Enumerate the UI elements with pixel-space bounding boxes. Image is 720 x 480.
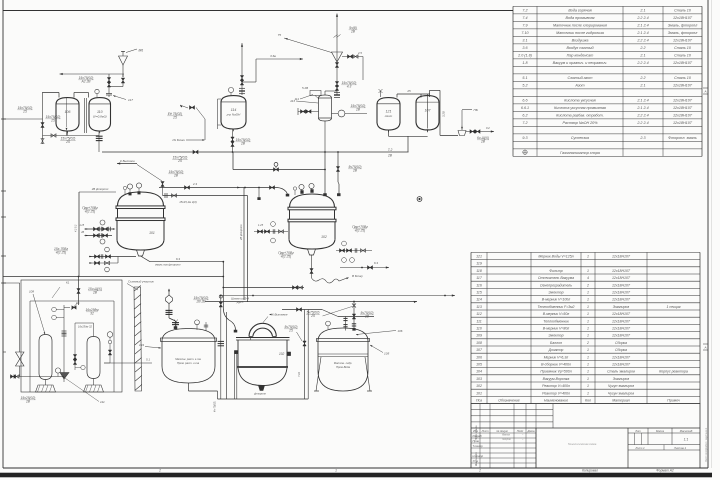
vessel 105 gauge — [326, 321, 331, 329]
svg-text:Реактор V=400л: Реактор V=400л — [542, 384, 570, 388]
svg-text:3.6: 3.6 — [522, 46, 528, 50]
valve on header — [172, 150, 198, 163]
svg-text:Подп. и дата: Подп. и дата — [475, 425, 478, 440]
svg-text:12х18Н10Т: 12х18Н10Т — [673, 121, 693, 125]
svg-text:2.0 (1.8): 2.0 (1.8) — [517, 54, 533, 58]
tank 110 gauge — [95, 89, 99, 97]
svg-text:4(2 25): 4(2 25) — [355, 228, 365, 232]
svg-text:Эмалиров: Эмалиров — [613, 305, 630, 309]
svg-text:Эмалиров: Эмалиров — [613, 377, 630, 381]
svg-text:4(2 25): 4(2 25) — [56, 250, 66, 254]
svg-text:12х18Н10Т: 12х18Н10Т — [612, 276, 631, 280]
svg-text:М6: М6 — [139, 49, 144, 53]
arrow line to left — [60, 73, 125, 84]
reactor 101 gauges — [123, 183, 141, 195]
svg-text:2.1: 2.1 — [639, 84, 645, 88]
svg-text:1: 1 — [587, 363, 589, 367]
reactor 101 top-right pipes — [159, 182, 289, 204]
svg-text:Дозатор: Дозатор — [548, 348, 564, 352]
bund inner box — [30, 301, 114, 392]
riser above 114 — [241, 43, 243, 95]
svg-text:2В: 2В — [352, 168, 358, 172]
svg-text:4(2 25): 4(2 25) — [85, 209, 95, 213]
svg-text:12х18Н10Т: 12х18Н10Т — [673, 39, 693, 43]
break marks — [334, 26, 358, 38]
bottom reactor body — [236, 338, 290, 386]
svg-text:А: А — [703, 345, 706, 349]
svg-text:Теплообменник F=3м2: Теплообменник F=3м2 — [538, 305, 575, 309]
svg-text:2.2 2.4: 2.2 2.4 — [636, 39, 648, 43]
svg-text:Сжатый азот: Сжатый азот — [568, 76, 593, 80]
svg-text:К1: К1 — [66, 281, 70, 285]
svg-text:2В: 2В — [80, 232, 84, 234]
svg-text:12х18Н10Т: 12х18Н10Т — [612, 355, 631, 359]
svg-text:114: 114 — [231, 108, 237, 112]
balloon2 feed — [73, 323, 93, 370]
label 113 — [290, 99, 318, 103]
lever valve — [64, 303, 99, 315]
svg-text:105: 105 — [384, 352, 389, 356]
svg-text:2В фторопл: 2В фторопл — [239, 224, 243, 241]
riser x337 with top arrow — [336, 14, 338, 96]
svg-text:111: 111 — [476, 319, 481, 323]
tank 114 — [221, 96, 246, 132]
svg-text:1.25: 1.25 — [80, 225, 85, 227]
left drain with gate valve — [3, 283, 55, 403]
level gauge between tanks — [85, 98, 87, 133]
svg-text:1: 1 — [587, 384, 589, 388]
svg-text:Вакуум-Воронка: Вакуум-Воронка — [543, 377, 570, 381]
svg-text:Вода промывная: Вода промывная — [566, 16, 595, 20]
svg-text:Азот: Азот — [574, 84, 584, 88]
svg-text:2В 2В: 2В 2В — [196, 299, 207, 303]
bund top valve — [77, 277, 102, 306]
svg-text:2: 2 — [158, 469, 161, 473]
svg-text:Из Бочки: Из Бочки — [173, 138, 186, 142]
svg-text:1: 1 — [587, 319, 589, 323]
svg-text:7.2: 7.2 — [522, 9, 527, 13]
tank 121 top valve — [379, 89, 383, 97]
flange pair on riser — [239, 88, 245, 93]
main header line — [102, 151, 409, 153]
svg-text:6.3: 6.3 — [176, 257, 180, 261]
svg-text:Эмаль, фторопл: Эмаль, фторопл — [668, 31, 698, 35]
svg-text:6.6.1: 6.6.1 — [521, 106, 529, 110]
svg-text:Приемник Vр=500л: Приемник Vр=500л — [540, 370, 571, 374]
svg-text:101: 101 — [476, 391, 482, 395]
svg-text:25: 25 — [288, 328, 293, 332]
svg-text:12х18Н10Т: 12х18Н10Т — [612, 283, 631, 287]
svg-text:2.1 2.4: 2.1 2.4 — [636, 31, 648, 35]
svg-text:25: 25 — [310, 314, 315, 318]
svg-text:12х18Н10Т: 12х18Н10Т — [612, 255, 631, 259]
svg-text:3.2В: 3.2В — [442, 111, 446, 117]
svg-text:Отсекатель Вакуума: Отсекатель Вакуума — [538, 276, 574, 280]
svg-text:25: 25 — [65, 140, 70, 144]
title block (основная надпись) — [471, 404, 700, 468]
canal line y301 — [205, 300, 417, 303]
svg-text:К Вытяжн: К Вытяжн — [120, 159, 135, 163]
reactor 102 gauges — [293, 183, 314, 195]
svg-text:Пар конденсат: Пар конденсат — [567, 54, 594, 58]
label 15х75(02)/25 second — [45, 115, 60, 122]
label 7.10 rotated — [297, 371, 301, 377]
label 117 with leader — [113, 95, 133, 102]
svg-text:75: 75 — [278, 33, 282, 37]
svg-text:Сталь 10: Сталь 10 — [674, 76, 692, 80]
bottom reactor discharge — [254, 386, 266, 396]
svg-text:3.1: 3.1 — [522, 39, 527, 43]
svg-text:Чугун эмалиров: Чугун эмалиров — [608, 384, 634, 388]
balloon support 2 — [84, 379, 104, 393]
svg-text:Наименование: Наименование — [544, 399, 568, 403]
svg-text:2.2 2.4: 2.2 2.4 — [636, 114, 648, 118]
vessel 105 top valves — [343, 301, 356, 331]
receiver top fittings — [174, 320, 208, 332]
canal line y287 — [222, 286, 304, 289]
svg-text:1: 1 — [587, 312, 589, 316]
reactor 102 drop and hose — [310, 255, 363, 283]
svg-text:118: 118 — [476, 269, 482, 273]
balloon support 1 — [36, 380, 56, 393]
valve under tank 106 line — [51, 134, 76, 144]
valve on left riser — [41, 123, 44, 144]
svg-text:105: 105 — [476, 363, 482, 367]
svg-text:2.2 2.4: 2.2 2.4 — [636, 16, 648, 20]
valve pair near tank110 nozzle — [107, 74, 110, 94]
svg-text:2.1 2.4: 2.1 2.4 — [636, 106, 648, 110]
svg-text:2В: 2В — [387, 154, 393, 158]
svg-text:А: А — [703, 89, 706, 93]
svg-text:1.8: 1.8 — [522, 61, 528, 65]
label 108 leader — [29, 290, 46, 335]
svg-text:3.6в: 3.6в — [270, 54, 276, 58]
svg-text:Чугун эмалиров: Чугун эмалиров — [608, 391, 634, 395]
svg-text:Фильтр: Фильтр — [549, 269, 562, 273]
svg-text:2В: 2В — [92, 290, 98, 294]
svg-text:Вода горячая: Вода горячая — [568, 9, 591, 13]
bund center pipe — [62, 305, 67, 382]
flange above condenser — [334, 92, 340, 97]
reactor 101 bottom valve — [137, 250, 145, 256]
svg-text:110: 110 — [476, 327, 482, 331]
svg-text:Технологическая схема: Технологическая схема — [568, 442, 597, 446]
swan neck vacuum funnel — [249, 313, 288, 340]
valve pair right — [466, 126, 494, 143]
svg-text:4.2 5.2: 4.2 5.2 — [75, 224, 78, 232]
label 105 — [370, 344, 390, 355]
svg-text:7.10: 7.10 — [521, 31, 529, 35]
bottom margin texts — [158, 469, 674, 473]
svg-text:р-р NaOH: р-р NaOH — [226, 113, 241, 117]
svg-text:Лист дообработ. чертежа 1: Лист дообработ. чертежа 1 — [705, 427, 708, 463]
svg-text:Мерник V=6,3л: Мерник V=6,3л — [544, 355, 569, 359]
label 15х75(02)/25 at left border — [17, 106, 32, 113]
discharge to right — [141, 256, 224, 267]
wall label — [127, 280, 154, 291]
svg-text:12х18Н10Т: 12х18Н10Т — [612, 334, 631, 338]
svg-text:2.2 2.4: 2.2 2.4 — [636, 121, 648, 125]
reactor 101 — [116, 192, 165, 250]
tank 106 — [56, 98, 79, 134]
svg-text:Листов 1: Листов 1 — [673, 446, 687, 450]
tank 114 level pipe — [218, 99, 222, 129]
svg-text:2В фторопл: 2В фторопл — [91, 187, 109, 191]
svg-text:108: 108 — [29, 290, 34, 294]
svg-text:А2 2В: А2 2В — [81, 79, 92, 83]
balloon 109 — [87, 337, 100, 379]
svg-text:12х18Н10Т: 12х18Н10Т — [673, 84, 693, 88]
diaphragm valve — [274, 163, 279, 172]
svg-text:106: 106 — [476, 355, 482, 359]
svg-text:В-мерник V=100л: В-мерник V=100л — [542, 298, 571, 302]
svg-text:107: 107 — [425, 109, 432, 113]
svg-text:Маточник после хлорирования: Маточник после хлорирования — [553, 24, 607, 28]
bund gauges — [52, 307, 64, 320]
svg-text:7.2: 7.2 — [522, 121, 527, 125]
cyclone funnel — [332, 52, 343, 62]
tank 121 — [377, 98, 400, 133]
svg-text:7.4: 7.4 — [522, 16, 527, 20]
svg-text:1: 1 — [587, 370, 589, 374]
svg-text:2.1: 2.1 — [639, 9, 645, 13]
valves under 114 — [231, 137, 251, 147]
left main riser — [78, 192, 80, 277]
svg-text:Обозначение: Обозначение — [498, 399, 519, 403]
svg-text:12х18Н10Т: 12х18Н10Т — [673, 114, 693, 118]
bund right gauges — [107, 332, 113, 363]
svg-text:12х18Н10Т: 12х18Н10Т — [673, 106, 693, 110]
svg-text:Формат А2: Формат А2 — [656, 469, 674, 473]
svg-text:Копировал: Копировал — [582, 469, 598, 473]
drain point circle — [417, 197, 422, 202]
svg-text:5.2: 5.2 — [522, 84, 527, 88]
line 3.6в with arrow — [242, 54, 303, 82]
svg-text:2: 2 — [478, 469, 481, 473]
svg-text:108: 108 — [476, 341, 482, 345]
svg-text:Петров: Петров — [502, 439, 511, 441]
box 5.2В — [302, 86, 321, 99]
svg-text:25: 25 — [22, 109, 27, 113]
reactor 102 bottom valve — [308, 249, 316, 255]
svg-text:Эжектор: Эжектор — [548, 291, 563, 295]
svg-text:2В: 2В — [173, 173, 179, 177]
svg-text:104: 104 — [476, 370, 482, 374]
svg-text:фторопл: фторопл — [254, 392, 266, 396]
svg-text:106: 106 — [398, 329, 403, 333]
tank 110 — [89, 98, 111, 134]
right riser from jumper — [440, 90, 446, 135]
svg-text:2.3: 2.3 — [639, 136, 646, 140]
svg-text:Н.контр: Н.контр — [473, 454, 484, 458]
svg-text:4.3: 4.3 — [347, 84, 352, 88]
svg-text:5.1: 5.1 — [522, 76, 527, 80]
svg-text:2: 2 — [586, 283, 589, 287]
pipe to tank group — [3, 92, 43, 144]
trap circle right of condenser — [332, 104, 368, 117]
svg-text:4: 4 — [587, 276, 589, 280]
svg-text:Вакуум и органич. и неорганич.: Вакуум и органич. и неорганич. — [553, 61, 608, 65]
tank 107 — [416, 96, 439, 133]
receiver 104 body — [161, 329, 217, 384]
svg-text:12х18Н10Т: 12х18Н10Т — [673, 16, 693, 20]
svg-text:Воздух сжатый: Воздух сжатый — [566, 46, 593, 50]
svg-text:2.1 2.4: 2.1 2.4 — [636, 99, 648, 103]
svg-text:113: 113 — [476, 305, 482, 309]
valve under cyclone — [335, 63, 338, 68]
svg-text:Сборка: Сборка — [615, 348, 627, 352]
tank 114 gauge — [228, 87, 233, 95]
svg-text:12х18Н10Т: 12х18Н10Т — [612, 291, 631, 295]
vessel 105 legs — [314, 357, 372, 391]
svg-text:2: 2 — [586, 341, 589, 345]
svg-text:6.6: 6.6 — [522, 99, 528, 103]
equipment specification table — [471, 252, 700, 403]
svg-text:25: 25 — [172, 115, 177, 119]
svg-text:эмаль пов фторопл: эмаль пов фторопл — [155, 263, 181, 267]
svg-text:Сталь 10: Сталь 10 — [674, 46, 692, 50]
svg-text:В Бочку: В Бочку — [352, 274, 363, 278]
svg-text:2.2: 2.2 — [639, 46, 645, 50]
valves on riser 114 — [240, 76, 243, 86]
receiver vent and feed stack — [166, 289, 209, 329]
svg-text:114: 114 — [476, 298, 482, 302]
svg-text:6.2: 6.2 — [522, 114, 527, 118]
Из Бочки arrow — [173, 138, 206, 142]
svg-text:Огнепреградитель: Огнепреградитель — [540, 283, 572, 287]
label 111 bund — [62, 376, 105, 404]
jumper over 121-107 — [397, 89, 440, 132]
jacket box — [218, 312, 309, 399]
svg-text:110: 110 — [97, 110, 103, 114]
funnel М6 — [119, 49, 144, 78]
svg-text:Эмаль, фторопл: Эмаль, фторопл — [668, 24, 698, 28]
svg-text:103: 103 — [476, 377, 482, 381]
valve drop right of reactor — [284, 310, 308, 400]
line y309 with valves — [282, 307, 374, 319]
svg-text:Т.контр: Т.контр — [473, 444, 484, 448]
valve on М6 drop — [109, 78, 125, 87]
svg-text:1: 1 — [587, 391, 589, 395]
svg-text:Кч-75(02): Кч-75(02) — [214, 401, 217, 412]
svg-text:Фторопл. эмаль: Фторопл. эмаль — [668, 136, 697, 140]
bottom reactor right nozzle — [287, 352, 291, 356]
svg-text:2.1: 2.1 — [639, 54, 645, 58]
riser pair fluoroplast — [239, 188, 248, 303]
svg-text:Ду25: Ду25 — [236, 300, 244, 304]
bund outer box — [21, 280, 122, 392]
svg-text:106: 106 — [65, 110, 71, 114]
bottom pipe tanks — [43, 131, 100, 152]
line 5.1 out — [104, 358, 152, 364]
bottom reactor left nozzle — [234, 351, 238, 400]
svg-text:Маточн. раст. к-та: Маточн. раст. к-та — [175, 357, 201, 361]
svg-text:102: 102 — [279, 352, 285, 356]
svg-text:4(2 25): 4(2 25) — [281, 254, 291, 258]
svg-text:2В: 2В — [480, 139, 486, 143]
label 7.2 2В — [387, 148, 393, 158]
svg-text:Подп: Подп — [517, 429, 524, 433]
left border pipe stubs — [1, 119, 6, 352]
riser x223 with curve — [222, 261, 237, 332]
svg-text:1: 1 — [587, 291, 589, 295]
svg-text:2В: 2В — [364, 314, 370, 318]
reactor 102 dome drop x338 — [336, 152, 362, 196]
svg-text:2В: 2В — [355, 107, 361, 111]
jumper over tanks — [43, 93, 89, 98]
svg-text:1: 1 — [587, 355, 589, 359]
reactor 102 right valve row — [336, 225, 372, 262]
svg-text:102: 102 — [476, 384, 482, 388]
condensate drop to dome — [324, 152, 327, 196]
label K1 — [52, 281, 70, 299]
svg-text:Инв. № подл.: Инв. № подл. — [475, 451, 478, 466]
svg-text:12х18Н10Т: 12х18Н10Т — [612, 319, 631, 323]
svg-text:Теплообменник: Теплообменник — [543, 319, 569, 323]
reactor 101 discharge line — [54, 247, 136, 272]
svg-text:Кислота уксусная промывная: Кислота уксусная промывная — [554, 106, 606, 110]
svg-text:16х25дм 32: 16х25дм 32 — [78, 325, 92, 329]
svg-text:Кол: Кол — [585, 399, 591, 403]
valve pair left of condenser — [298, 108, 319, 115]
balloon 108 — [39, 335, 52, 380]
pipe y276 across — [3, 276, 224, 278]
reactor 102 left valve row — [254, 222, 294, 259]
vent line К Вытяжн — [117, 159, 137, 165]
svg-text:25: 25 — [50, 118, 55, 122]
label 111 top — [294, 95, 313, 102]
funnel in bund — [55, 368, 69, 379]
svg-text:1: 1 — [587, 255, 589, 259]
reactor 101 vent line — [137, 165, 184, 197]
svg-text:Баллон: Баллон — [550, 341, 562, 345]
reactor 102 gauge feet — [301, 190, 314, 194]
svg-text:7.2: 7.2 — [388, 148, 393, 152]
svg-text:Материал: Материал — [612, 399, 630, 403]
valves above condenser — [335, 81, 356, 91]
right margin rotated caption — [705, 427, 708, 463]
svg-text:Пром. раст. к-та: Пром. раст. к-та — [177, 361, 200, 365]
svg-text:1: 1 — [587, 377, 589, 381]
drop from tank 114 — [232, 129, 234, 152]
svg-text:2.1 2.4: 2.1 2.4 — [636, 24, 648, 28]
svg-text:Раствор NaOH 20%: Раствор NaOH 20% — [562, 121, 598, 125]
svg-text:5.1: 5.1 — [146, 358, 150, 362]
svg-text:1:1: 1:1 — [684, 438, 689, 442]
svg-text:2.2 2.4: 2.2 2.4 — [636, 61, 648, 65]
svg-text:Эжектор: Эжектор — [548, 334, 563, 338]
vacuum breaker funnel — [440, 108, 478, 136]
svg-text:ПБ: ПБ — [474, 108, 478, 112]
svg-text:Пром-Вода: Пром-Вода — [336, 365, 350, 369]
svg-text:Масса: Масса — [656, 429, 664, 433]
tanks bottom pipes — [389, 130, 428, 152]
svg-text:Воздушка: Воздушка — [572, 39, 589, 43]
svg-text:121: 121 — [386, 110, 392, 114]
svg-text:121: 121 — [476, 255, 482, 259]
svg-text:12х18Н10Т: 12х18Н10Т — [612, 269, 631, 273]
svg-text:7.10: 7.10 — [297, 371, 301, 377]
svg-text:Реактор V=400л: Реактор V=400л — [542, 391, 570, 395]
svg-text:Съемный участок: Съемный участок — [128, 280, 154, 284]
feed pipe x220 with valve — [218, 295, 224, 399]
svg-text:Кислота разбав. отработ.: Кислота разбав. отработ. — [556, 114, 603, 118]
svg-text:5.2В: 5.2В — [302, 86, 308, 90]
svg-text:1: 1 — [587, 327, 589, 331]
slanted leader to cyclone — [278, 33, 332, 53]
svg-text:Кислота уксусная: Кислота уксусная — [564, 99, 595, 103]
svg-text:Газоанализатор хлора: Газоанализатор хлора — [560, 151, 600, 155]
